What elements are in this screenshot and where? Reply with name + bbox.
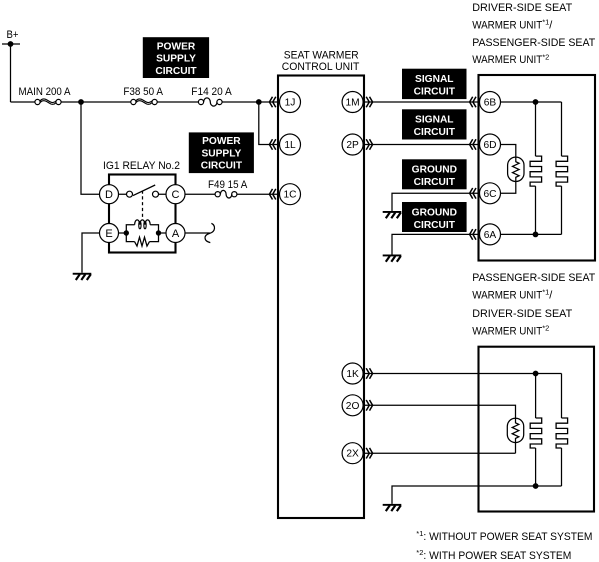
wire C to F49: [185, 193, 215, 195]
svg-text:F14 20 A: F14 20 A: [191, 86, 232, 98]
wire 2O to thermistor: [363, 405, 515, 418]
signal circuit label 1: [402, 69, 467, 99]
svg-text:CONTROL UNIT: CONTROL UNIT: [282, 61, 360, 73]
heater element right upper: [556, 102, 568, 234]
svg-text:WARMER UNIT*2: WARMER UNIT*2: [472, 52, 549, 66]
lower warmer unit box: [479, 347, 595, 512]
svg-text:*1: WITHOUT POWER SEAT SYSTEM: *1: WITHOUT POWER SEAT SYSTEM: [416, 529, 592, 543]
junction dot 6B heater: [533, 99, 539, 105]
relay IG1 RELAY No.2: [103, 160, 180, 253]
ground 6A: [383, 255, 402, 262]
wire 1M to 6B: [363, 101, 479, 103]
wire 1L feed: [259, 102, 280, 145]
svg-text:SUPPLY: SUPPLY: [201, 149, 241, 160]
wire 2P to 6D: [363, 144, 479, 146]
junction dot lower ground: [533, 483, 539, 489]
svg-text:1K: 1K: [346, 369, 359, 380]
junction dot relay A-side: [156, 230, 161, 235]
seat warmer control unit: [278, 50, 364, 518]
thermistor lower: [507, 418, 523, 442]
relay resistor: [135, 237, 150, 246]
pin 6D: [480, 134, 501, 155]
heater element left upper: [530, 102, 542, 234]
wire E internal: [118, 232, 126, 234]
wire relay feed from bus to D: [81, 102, 100, 194]
svg-text:F49 15 A: F49 15 A: [208, 179, 248, 191]
lower warmer unit title: [472, 272, 595, 337]
svg-text:E: E: [105, 228, 112, 240]
svg-text:DRIVER-SIDE SEAT: DRIVER-SIDE SEAT: [472, 2, 572, 14]
wire F49 to 1C: [237, 193, 280, 195]
svg-text:F38 50 A: F38 50 A: [123, 86, 163, 98]
ground circuit label 1: [402, 159, 467, 189]
ground circuit label 2: [402, 202, 467, 232]
svg-text:6A: 6A: [484, 230, 497, 241]
svg-text:6C: 6C: [483, 189, 496, 200]
signal circuit label 2: [402, 109, 467, 139]
svg-text:MAIN 200 A: MAIN 200 A: [19, 86, 72, 98]
wire A internal: [159, 232, 167, 234]
svg-text:GROUND: GROUND: [412, 165, 457, 176]
fuse F14 20 A: [191, 86, 232, 106]
pin 1L: [280, 134, 301, 155]
relay pin A: [166, 224, 185, 243]
pin 2P: [342, 134, 363, 155]
relay switch fixed contacts: [127, 191, 133, 197]
pin 1C: [280, 184, 301, 205]
relay switch contact wires: [119, 193, 167, 195]
connector chevrons 1L: [269, 139, 275, 150]
junction dot 1K heater: [533, 371, 539, 377]
connector chevrons 1M: [366, 97, 372, 108]
svg-text:1M: 1M: [346, 98, 360, 109]
svg-text:POWER: POWER: [202, 136, 241, 147]
wire A continuation: [185, 232, 210, 234]
node B+: [2, 29, 20, 47]
svg-text:CIRCUIT: CIRCUIT: [414, 87, 456, 98]
wire 6A internal to heaters: [501, 233, 562, 235]
junction dot 1L feed: [256, 99, 262, 105]
junction dot 6A heater: [533, 232, 539, 238]
upper warmer unit box: [479, 75, 596, 261]
svg-text:SUPPLY: SUPPLY: [156, 54, 196, 65]
ground relay: [73, 273, 92, 280]
svg-text:6D: 6D: [483, 140, 496, 151]
svg-text:D: D: [105, 189, 113, 201]
svg-text:1L: 1L: [284, 140, 296, 151]
svg-text:GROUND: GROUND: [412, 207, 457, 218]
connector chevrons 6B: [470, 97, 476, 108]
pin 6B: [480, 92, 501, 113]
svg-text:SEAT WARMER: SEAT WARMER: [284, 50, 359, 62]
wire 6C to ground: [392, 193, 480, 211]
svg-text:POWER: POWER: [157, 41, 196, 52]
svg-text:PASSENGER-SIDE SEAT: PASSENGER-SIDE SEAT: [472, 272, 595, 284]
svg-text:6B: 6B: [484, 98, 497, 109]
wire 6A to ground: [392, 234, 480, 254]
relay pin C: [166, 185, 185, 204]
connector chevrons 6C: [470, 188, 476, 199]
pin 6C: [480, 183, 501, 204]
wire 1K to heaters: [363, 373, 561, 375]
wire lower ground bus: [392, 486, 562, 504]
pin 1J: [280, 92, 301, 113]
svg-text:PASSENGER-SIDE SEAT: PASSENGER-SIDE SEAT: [472, 37, 595, 49]
svg-text:2O: 2O: [346, 401, 360, 412]
fuse F49 15 A: [208, 179, 248, 198]
svg-text:A: A: [172, 228, 180, 240]
relay pin E: [100, 224, 119, 243]
wire E to ground: [82, 233, 100, 273]
svg-text:WARMER UNIT*2: WARMER UNIT*2: [472, 324, 549, 338]
connector chevrons 1J: [269, 97, 275, 108]
power supply circuit label 1: [143, 37, 209, 78]
wire bus segment MAIN to F38: [61, 101, 131, 103]
svg-text:C: C: [172, 189, 180, 201]
pin 2X: [342, 443, 363, 464]
relay resistor branch bottom rail: [126, 233, 158, 242]
svg-text:WARMER UNIT*1/: WARMER UNIT*1/: [472, 288, 553, 302]
svg-text:1J: 1J: [285, 98, 296, 109]
connector chevrons 6A: [470, 229, 476, 240]
pin 1K: [342, 363, 363, 384]
svg-text:2X: 2X: [346, 449, 359, 460]
svg-text:B+: B+: [7, 29, 19, 41]
svg-text:WARMER UNIT*1/: WARMER UNIT*1/: [472, 18, 553, 32]
pin 1M: [342, 92, 363, 113]
relay pin D: [100, 185, 119, 204]
pin 2O: [342, 395, 363, 416]
wire 2X to thermistor: [363, 443, 515, 454]
svg-text:2P: 2P: [346, 140, 359, 151]
svg-text:DRIVER-SIDE SEAT: DRIVER-SIDE SEAT: [472, 308, 572, 320]
wire bus segment B+ to MAIN fuse: [11, 101, 36, 103]
junction dot relay feed: [78, 99, 84, 105]
connector chevrons 2O: [366, 400, 372, 411]
wire bus segment F14 to 1J: [222, 101, 279, 103]
ground lower unit: [383, 504, 402, 511]
svg-text:CIRCUIT: CIRCUIT: [201, 161, 243, 172]
wire 6B internal to heaters: [501, 101, 562, 103]
relay actuation dashed link: [142, 191, 144, 220]
svg-text:CIRCUIT: CIRCUIT: [414, 127, 456, 138]
svg-text:CIRCUIT: CIRCUIT: [155, 66, 197, 77]
ground 6C: [383, 211, 402, 218]
pin 6A: [480, 224, 501, 245]
svg-text:CIRCUIT: CIRCUIT: [414, 177, 456, 188]
svg-text:SIGNAL: SIGNAL: [415, 115, 454, 126]
connector chevrons 1C: [269, 189, 275, 200]
relay coil branch top rail: [126, 225, 158, 233]
power supply circuit label 2: [189, 132, 254, 173]
thermistor upper: [501, 145, 525, 194]
svg-text:CIRCUIT: CIRCUIT: [414, 220, 456, 231]
svg-text:IG1 RELAY No.2: IG1 RELAY No.2: [103, 160, 180, 172]
relay switch blade: [133, 185, 155, 196]
fuse MAIN 200 A: [19, 86, 72, 105]
svg-text:SIGNAL: SIGNAL: [415, 74, 454, 85]
connector chevrons 6D: [470, 139, 476, 150]
heater element right lower: [556, 374, 568, 487]
wire bus segment F38 to F14: [157, 101, 198, 103]
connector chevrons 2P: [366, 139, 372, 150]
connector chevrons 2X: [366, 448, 372, 459]
heater element left lower: [530, 374, 542, 487]
junction dot relay E-side: [124, 230, 129, 235]
wire B+ drop: [10, 44, 12, 102]
continuation squiggle: [205, 223, 214, 242]
svg-text:*2: WITH POWER SEAT SYSTEM: *2: WITH POWER SEAT SYSTEM: [416, 548, 571, 562]
fuse F38 50 A: [123, 86, 163, 105]
relay coil: [135, 220, 151, 229]
svg-text:1C: 1C: [283, 190, 296, 201]
upper warmer unit title: [472, 2, 595, 66]
connector chevrons 1K: [366, 368, 372, 379]
